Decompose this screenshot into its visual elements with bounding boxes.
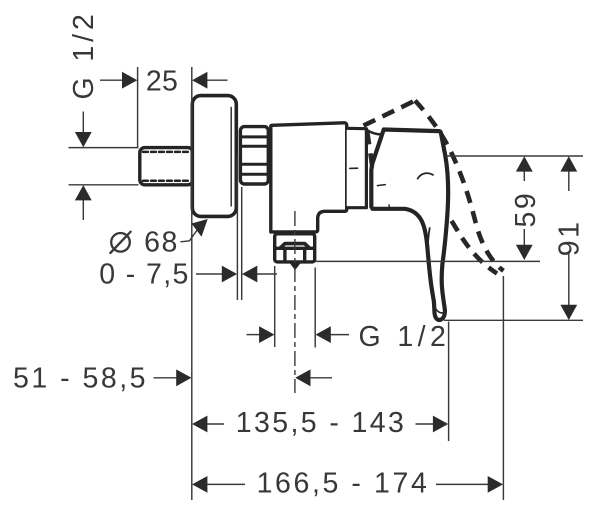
G 1/2 left ext line top xyxy=(69,147,139,149)
dia68 leader xyxy=(181,230,198,242)
label dia 68 slash xyxy=(110,231,132,254)
arrow 166 left-point xyxy=(192,476,207,493)
hex nut flat line 2 xyxy=(240,145,268,148)
ext line dashed tip xyxy=(502,276,504,500)
collar tick xyxy=(350,167,358,169)
outlet hex nut trapezoid xyxy=(280,244,309,248)
escutcheon face inner edge xyxy=(230,108,232,207)
dim 0-7,5 ext line a xyxy=(236,156,238,300)
svg-text:0 - 7,5: 0 - 7,5 xyxy=(99,258,190,290)
faucet body group xyxy=(140,96,448,320)
arrow 59 down xyxy=(516,245,533,260)
hex nut flat line 4 xyxy=(240,173,268,176)
dashed line D1 front edge raised handle xyxy=(364,101,416,126)
dim 59 stem top xyxy=(523,171,525,182)
handle front inner tick xyxy=(377,185,385,186)
handle thumb arc xyxy=(418,173,433,178)
svg-text:51 - 58,5: 51 - 58,5 xyxy=(13,362,148,394)
G 1/2 bottom stem right xyxy=(330,334,349,336)
arrow 51-58,5 right-point xyxy=(176,369,191,386)
hex nut flat line 3 xyxy=(240,163,268,166)
arrow 0-7,5 left-point xyxy=(242,266,257,283)
outlet block xyxy=(275,234,315,262)
handle block and lever outline xyxy=(371,130,448,321)
escutcheon wall plate xyxy=(192,96,236,217)
arrow G12bottom left-point xyxy=(316,326,331,343)
ext line handle tip xyxy=(448,322,450,442)
arrow 91 up xyxy=(560,156,577,171)
dim 0-7,5 stem left xyxy=(196,273,223,275)
dim 59 stem bottom xyxy=(523,229,525,246)
top reference line 59/91 xyxy=(446,155,583,157)
arrow 59 up xyxy=(516,156,533,171)
G 1/2 left dim stem top xyxy=(82,112,84,134)
arrow 135 left-point xyxy=(192,416,207,433)
G 1/2 left dim stem bottom xyxy=(82,200,84,221)
svg-text:G 1/2: G 1/2 xyxy=(359,321,451,353)
hex nut flat line 1 xyxy=(240,135,268,138)
svg-text:166,5 - 174: 166,5 - 174 xyxy=(257,468,430,500)
cartridge dome arc xyxy=(366,130,383,135)
arrow dia68 xyxy=(192,219,208,237)
outlet hex nut inner vertical right xyxy=(303,248,306,259)
arrow 25 left-point xyxy=(192,72,207,89)
svg-text:91: 91 xyxy=(553,219,585,256)
arrow G12left up xyxy=(75,185,92,200)
connection hex nut xyxy=(240,127,268,184)
label dia 68 circle xyxy=(111,233,130,252)
dim 166,5-174 stem left xyxy=(207,483,246,485)
arrow 135 right-point xyxy=(433,416,448,433)
arrowheads group xyxy=(75,72,577,493)
centerline outlet xyxy=(294,211,296,393)
dashed raised-handle outline group (drawn first, under faucet) xyxy=(364,101,504,274)
dim 25 line right xyxy=(206,79,228,81)
wall extension line xyxy=(191,67,193,500)
G 1/2 bottom ext line left xyxy=(274,266,276,347)
arrow 91 down xyxy=(560,305,577,320)
outlet drop nib xyxy=(289,263,301,271)
middle reference line 59 xyxy=(316,260,541,262)
handle inner curve line xyxy=(428,228,430,272)
dim 25 line left xyxy=(100,79,123,81)
arrow 0-7,5 right-point xyxy=(222,266,237,283)
svg-text:135,5 - 143: 135,5 - 143 xyxy=(236,407,407,439)
svg-text:G 1/2: G 1/2 xyxy=(68,10,100,99)
wall supply pipe (threaded) xyxy=(140,148,193,185)
svg-text:59: 59 xyxy=(510,191,542,228)
dashed front edge lower sliver xyxy=(367,132,372,167)
outlet hex nut band line xyxy=(276,247,313,250)
mixer body outline xyxy=(271,123,347,232)
arrow 51-58,5 left-point xyxy=(295,369,310,386)
cartridge collar xyxy=(347,128,367,207)
pipe thread dashes bottom xyxy=(143,179,190,182)
G 1/2 left ext line bottom xyxy=(69,184,139,186)
dim 91 stem bottom xyxy=(568,253,570,306)
dim 0-7,5 stem right xyxy=(257,273,278,275)
dashed line D2 outer raised lever xyxy=(415,101,504,271)
G 1/2 bottom stem left xyxy=(247,334,261,336)
dim 51-58,5 stem right xyxy=(311,377,333,379)
G 1/2 bottom ext line right xyxy=(314,268,316,348)
bottom reference line 91 xyxy=(444,319,583,321)
dim 0-7,5 ext line b xyxy=(241,187,243,300)
pipe end extension line xyxy=(137,67,139,147)
dashed line D3 inner raised lever xyxy=(442,204,498,274)
dim 166,5-174 stem right xyxy=(436,483,488,485)
arrow G12left down xyxy=(75,132,92,147)
skirt tick xyxy=(388,205,390,209)
lever tip cap line xyxy=(436,309,445,313)
dim 51-58,5 stem left xyxy=(154,377,178,379)
dim 135,5-143 stem left xyxy=(207,423,225,425)
dimension annotations group xyxy=(69,67,584,500)
svg-text:25: 25 xyxy=(146,66,178,98)
pipe thread dashes top xyxy=(143,151,190,154)
arrow 166 right-point xyxy=(488,476,503,493)
dim 135,5-143 stem right xyxy=(416,423,434,425)
svg-text:68: 68 xyxy=(144,227,179,259)
arrow 25 right-point xyxy=(122,72,137,89)
outlet hex nut inner vertical left xyxy=(283,248,286,259)
arrow G12bottom right-point xyxy=(259,326,274,343)
dim 91 stem top xyxy=(568,171,570,192)
